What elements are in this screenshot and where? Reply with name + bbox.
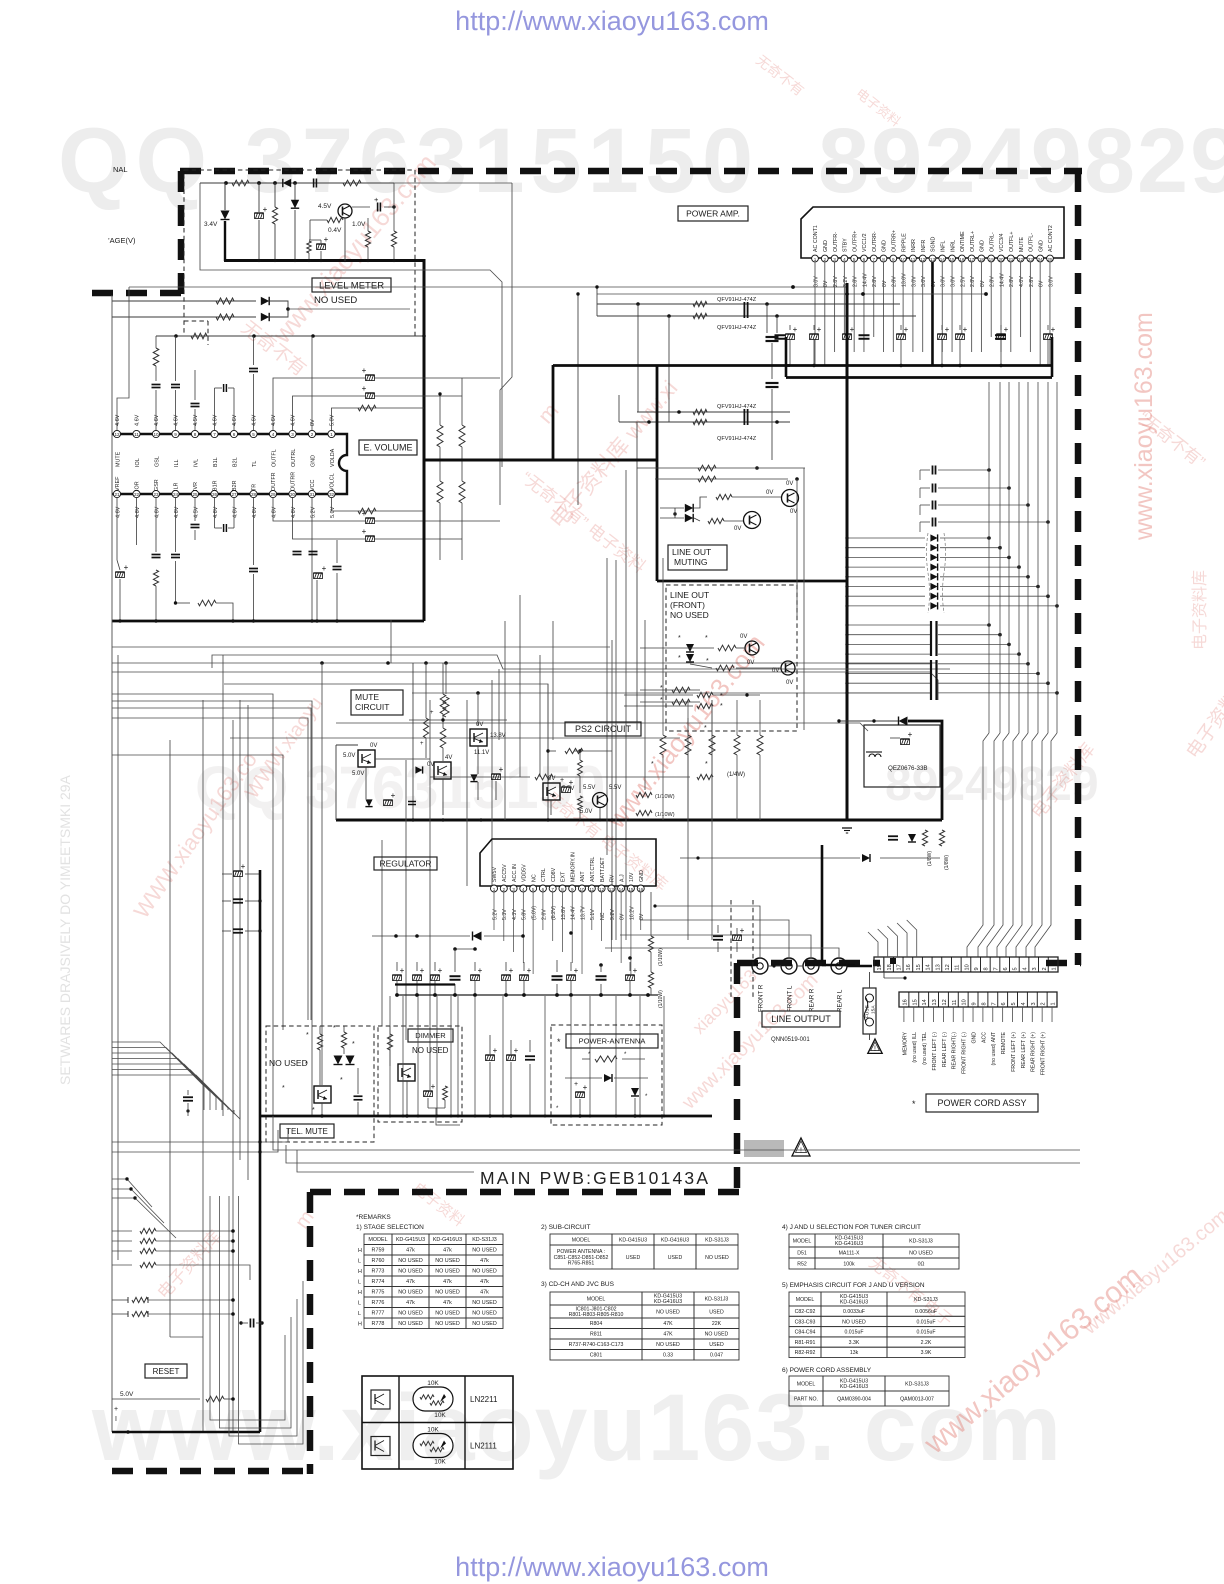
svg-text:2: 2 [311, 432, 314, 437]
level meter label [312, 278, 391, 292]
bus vertical to rear jack [821, 845, 824, 962]
svg-text:9: 9 [571, 887, 574, 892]
svg-text:10: 10 [901, 257, 907, 262]
svg-text:C83-C93: C83-C93 [795, 1319, 816, 1325]
bus wire mesh row C [112, 672, 938, 700]
svg-text:NO USED: NO USED [656, 1309, 680, 1315]
svg-text:10: 10 [579, 887, 585, 892]
power amp pin 7 OUTRR- [870, 255, 877, 262]
regulator pin 3 ACC.IN [510, 885, 517, 892]
svg-text:(no used) ANT: (no used) ANT [991, 1031, 997, 1065]
svg-text:23: 23 [153, 492, 159, 497]
svg-text:IVR: IVR [193, 482, 199, 491]
svg-text:0V: 0V [734, 526, 741, 532]
svg-text:VOLDA: VOLDA [330, 448, 336, 467]
regulator cap bank [393, 975, 402, 981]
svg-text:R737-R740-C163-C173: R737-R740-C163-C173 [569, 1342, 624, 1348]
power amp pin 13 SGND [929, 255, 936, 262]
corner x170 to x203 [170, 1336, 203, 1338]
svg-text:24: 24 [1038, 257, 1044, 262]
rc below base [307, 241, 311, 253]
svg-text:13: 13 [930, 257, 936, 262]
svg-text:MA111-X: MA111-X [839, 1250, 860, 1256]
svg-text:电子资料库: 电子资料库 [1191, 570, 1209, 650]
svg-text:FRONT RIGHT (-): FRONT RIGHT (-) [962, 1032, 968, 1074]
svg-text:KD-G416U3: KD-G416U3 [654, 1299, 682, 1305]
bridge cap pins B1R B2R [215, 527, 223, 529]
svg-text:4.6V: 4.6V [252, 414, 258, 426]
svg-text:+: + [527, 966, 532, 975]
svg-text:47K: 47K [663, 1332, 673, 1338]
e-volume pin 22 IOR [133, 490, 140, 497]
svg-text:47k: 47k [443, 1248, 452, 1254]
ps2 transistor Q [593, 793, 608, 808]
svg-text:3.3K: 3.3K [849, 1340, 860, 1346]
svg-text:+: + [362, 384, 367, 393]
regulator pin wires down [493, 892, 495, 930]
svg-text:*: * [312, 1107, 315, 1114]
svg-text:OUTFL+: OUTFL+ [1009, 232, 1015, 252]
level meter dashed enclosure [184, 170, 415, 336]
verticals above ladder to power amp [988, 382, 990, 538]
svg-text:22K: 22K [712, 1321, 722, 1327]
thick vertical left x260 [259, 870, 262, 1432]
e-volume pin 30 OUTRR [289, 490, 296, 497]
svg-text:REAR L: REAR L [837, 989, 844, 1012]
svg-text:NO USED: NO USED [909, 1250, 933, 1256]
ps2 circuit label [565, 722, 641, 736]
ecap vref [116, 572, 125, 578]
svg-text:21: 21 [114, 492, 120, 497]
svg-text:5.0V: 5.0V [352, 771, 364, 777]
svg-text:20: 20 [998, 257, 1004, 262]
svg-text:FRONT LEFT (+): FRONT LEFT (+) [1011, 1032, 1017, 1072]
svg-text:23: 23 [1028, 257, 1034, 262]
svg-text:RESET: RESET [153, 1367, 180, 1376]
svg-text:5.0V: 5.0V [343, 753, 355, 759]
svg-text:+: + [362, 527, 367, 536]
svg-text:C84-C94: C84-C94 [795, 1330, 816, 1336]
warning triangle main [792, 1138, 810, 1156]
svg-text:+: + [850, 325, 855, 334]
svg-text:0.4V: 0.4V [328, 227, 342, 234]
svg-text:5.5V: 5.5V [609, 785, 621, 791]
svg-text:IOL: IOL [135, 458, 141, 467]
svg-text:GND: GND [823, 240, 829, 252]
svg-text:2.8V: 2.8V [853, 276, 859, 287]
svg-text:4.6V: 4.6V [271, 414, 277, 426]
svg-text:18: 18 [887, 964, 893, 970]
svg-text:14: 14 [926, 964, 932, 970]
svg-text:4.6V: 4.6V [291, 414, 297, 426]
power amp pin 11 INRR [910, 255, 917, 262]
svg-text:0V: 0V [370, 743, 377, 749]
svg-text:4.6V: 4.6V [232, 414, 238, 426]
svg-text:+: + [908, 730, 913, 739]
svg-text:7: 7 [872, 257, 875, 262]
vertical resistor on mesh [443, 697, 449, 717]
svg-text:2: 2 [502, 887, 505, 892]
bottom-left cap [249, 1319, 251, 1328]
svg-text:11.1V: 11.1V [474, 750, 489, 756]
svg-text:FUSE: FUSE [865, 1005, 871, 1018]
svg-text:16: 16 [638, 887, 644, 892]
svg-text:+: + [740, 926, 745, 935]
svg-text:KD-S31J3: KD-S31J3 [909, 1238, 933, 1244]
svg-text:19: 19 [989, 257, 995, 262]
svg-text:14: 14 [619, 887, 625, 892]
thick ground rail upper [553, 364, 790, 367]
svg-text:4.6V: 4.6V [252, 506, 258, 518]
LN table resistor oval 2 [413, 1434, 453, 1458]
regulator pin 5 NC [530, 885, 537, 892]
fan wires into jacks [655, 906, 760, 957]
bus wire mesh row F [112, 701, 312, 1116]
regulator pin 4 VDD5V [520, 885, 527, 892]
wire from y287 corner down [117, 287, 129, 430]
svg-text:14.4V: 14.4V [862, 273, 868, 287]
line out front transistors [745, 641, 759, 655]
main board dashed border right [1075, 171, 1082, 965]
svg-text:0.015uF: 0.015uF [844, 1330, 863, 1336]
e-volume pin 6 B2L [230, 430, 237, 437]
svg-text:KD-S31J3: KD-S31J3 [905, 1381, 929, 1387]
svg-text:4.5V: 4.5V [318, 203, 332, 210]
svg-text:4.6V: 4.6V [213, 506, 219, 518]
ps2 resistors 1/4W [697, 692, 713, 697]
svg-text:SW5V: SW5V [492, 867, 498, 882]
qfv filter network upper [597, 303, 900, 305]
cluster right of trunk y830-860 [888, 835, 898, 837]
svg-text:FRONT R: FRONT R [758, 984, 765, 1012]
svg-text:NO USED: NO USED [472, 1321, 497, 1327]
regulator plain caps [450, 975, 461, 977]
svg-text:4: 4 [272, 432, 275, 437]
svg-text:4.6V: 4.6V [154, 414, 160, 426]
wires from left edge rail [111, 295, 113, 1432]
emphasis table [789, 1292, 821, 1306]
LN table [362, 1376, 513, 1469]
svg-text:POWER-ANTENNA: POWER-ANTENNA [579, 1037, 646, 1046]
power amp pin 21 OUTFL+ [1007, 255, 1014, 262]
svg-text:+: + [124, 563, 129, 572]
svg-text:MODEL: MODEL [793, 1238, 812, 1244]
svg-text:3: 3 [1032, 967, 1038, 970]
svg-text:OUTRR-: OUTRR- [872, 231, 878, 252]
e-volume pin 21 VREF [113, 490, 120, 497]
svg-text:+: + [241, 862, 246, 871]
power antenna resistor [595, 1056, 617, 1062]
line out muting feed resistors [637, 467, 748, 469]
level meter bottom thick bus and trunk [224, 261, 424, 461]
right ladder cap rows [932, 466, 934, 475]
svg-text:4.6V: 4.6V [232, 506, 238, 518]
power amp plain caps [859, 334, 870, 336]
svg-text:22: 22 [134, 492, 140, 497]
resistor vertical level meter [272, 207, 277, 224]
svg-text:VCC3/4: VCC3/4 [999, 233, 1005, 252]
svg-text:*: * [706, 658, 709, 665]
svg-text:6: 6 [863, 257, 866, 262]
svg-text:REAR R: REAR R [809, 988, 816, 1012]
svg-text:3.0V: 3.0V [813, 276, 819, 287]
main board dashed border left upper [178, 171, 185, 296]
tel mute opto [314, 1086, 331, 1103]
svg-text:100k: 100k [843, 1261, 855, 1267]
svg-text:ACC: ACC [981, 1032, 987, 1043]
svg-text:IVL: IVL [193, 459, 199, 467]
svg-text:4.3V: 4.3V [512, 909, 518, 920]
svg-text:10K: 10K [434, 1459, 446, 1466]
svg-text:INRL: INRL [950, 240, 956, 252]
svg-text:NO USED: NO USED [398, 1321, 423, 1327]
svg-text:25: 25 [1047, 257, 1053, 262]
svg-text:OUTFR-: OUTFR- [833, 232, 839, 252]
svg-text:R776: R776 [372, 1300, 385, 1306]
svg-text:4.6V: 4.6V [115, 506, 121, 518]
svg-text:MEMORY: MEMORY [902, 1031, 908, 1055]
svg-text:2.8V: 2.8V [892, 276, 898, 287]
svg-text:2.8V: 2.8V [990, 276, 996, 287]
volcl resistor to rail [332, 498, 425, 511]
power amp decoupling ecaps row [786, 334, 795, 340]
svg-text:9.2V: 9.2V [610, 909, 616, 920]
mute circuit resistors [440, 694, 446, 714]
svg-text:(no used) ILL: (no used) ILL [912, 1032, 918, 1063]
bridge cap pins B1L B2L [214, 388, 216, 430]
svg-text:R804: R804 [590, 1321, 603, 1327]
svg-text:MODEL: MODEL [368, 1237, 387, 1243]
fuse wires [869, 972, 871, 988]
opto D [543, 783, 560, 800]
svg-text:+: + [430, 710, 434, 716]
base resistor [327, 217, 343, 222]
svg-text:5: 5 [252, 432, 255, 437]
svg-text:0V: 0V [882, 280, 888, 287]
svg-text:+: + [904, 325, 909, 334]
svg-text:13.8V: 13.8V [561, 906, 567, 920]
svg-text:7: 7 [993, 967, 999, 970]
svg-text:B1R: B1R [213, 480, 219, 491]
level meter dashed corner piece [184, 320, 208, 322]
emitter resistors [365, 231, 370, 247]
svg-text:USED: USED [626, 1255, 641, 1261]
svg-text:LN2111: LN2111 [470, 1442, 497, 1451]
fuse F901 [863, 988, 876, 1034]
cap TR column [249, 568, 258, 570]
svg-text:15A: 15A [871, 1005, 877, 1014]
svg-text:0Ω: 0Ω [918, 1261, 925, 1267]
line output label [762, 1011, 840, 1027]
power amp pin 23 OUTFL- [1027, 255, 1034, 262]
main thick bus y820 [336, 819, 942, 822]
svg-text:REAR LEFT (+): REAR LEFT (+) [1021, 1032, 1027, 1069]
svg-text:R774: R774 [372, 1279, 385, 1285]
svg-text:5.2V: 5.2V [310, 506, 316, 518]
e-volume pin 1 VOLDA [328, 430, 335, 437]
power amp pin 18 GND [978, 255, 985, 262]
stage selection table [364, 1234, 392, 1245]
svg-text:LINE OUTPUT: LINE OUTPUT [771, 1014, 831, 1024]
bottom-left thick line [112, 1431, 260, 1434]
svg-text:R81-R91: R81-R91 [795, 1340, 816, 1346]
svg-text:ANT: ANT [580, 871, 586, 882]
main board dashed border lineout segment [737, 960, 880, 967]
svg-text:+: + [945, 325, 950, 334]
svg-text:NC: NC [600, 912, 606, 920]
svg-text:NO USED: NO USED [656, 1342, 680, 1348]
svg-text:12: 12 [599, 887, 605, 892]
main board dashed border lineout vertical [734, 963, 741, 1194]
svg-text:E. VOLUME: E. VOLUME [363, 443, 412, 453]
svg-text:47k: 47k [443, 1300, 452, 1306]
svg-text:4: 4 [1021, 1002, 1027, 1005]
svg-text:OUTRL: OUTRL [291, 449, 297, 467]
svg-text:+: + [322, 564, 327, 573]
svg-text:8: 8 [561, 887, 564, 892]
svg-text:DIMMER: DIMMER [415, 1031, 446, 1040]
svg-text:GND: GND [310, 455, 316, 467]
svg-text:6: 6 [542, 887, 545, 892]
regulator pin 14 A.J [618, 885, 625, 892]
svg-text:+: + [963, 325, 968, 334]
svg-text:2: 2 [824, 257, 827, 262]
svg-text:47k: 47k [443, 1279, 452, 1285]
svg-text:5) EMPHASIS CIRCUIT FOR J AND: 5) EMPHASIS CIRCUIT FOR J AND U VERSION [782, 1282, 925, 1289]
svg-text:0V: 0V [772, 668, 779, 674]
svg-text:ONTIME: ONTIME [960, 231, 966, 252]
mute long vertical x413 [412, 663, 414, 820]
e-volume pin 7 B1L [211, 430, 218, 437]
svg-text:+: + [431, 1082, 436, 1091]
svg-text:12: 12 [945, 964, 951, 970]
svg-text:GSR: GSR [154, 479, 160, 491]
svg-text:8: 8 [981, 1002, 987, 1005]
svg-text:5: 5 [1011, 1002, 1017, 1005]
e-volume pin 24 ILR [172, 490, 179, 497]
svg-text:4.6V: 4.6V [135, 506, 141, 518]
regulator IC body IC901 [480, 839, 656, 886]
svg-text:*: * [705, 635, 708, 642]
svg-text:MEMORY.IN: MEMORY.IN [570, 852, 576, 882]
zener + ecap mute [470, 774, 477, 781]
mute circuit label [351, 690, 403, 715]
verticals from regulator caps down to bus [389, 996, 391, 1116]
svg-text:19: 19 [877, 964, 883, 970]
svg-text:15: 15 [949, 257, 955, 262]
svg-text:0V: 0V [980, 280, 986, 287]
power amp pin 20 VCC3/4 [998, 255, 1005, 262]
power amp pin 5 OUTFR+ [851, 255, 858, 262]
dimmer dashed box [378, 1026, 462, 1122]
svg-text:NO USED: NO USED [472, 1248, 497, 1254]
pin17 mark [890, 958, 896, 964]
svg-text:L: L [358, 1280, 361, 1286]
thick bus y1116 [260, 1115, 712, 1118]
cd-ch jvc table [550, 1292, 642, 1305]
svg-text:11: 11 [134, 432, 139, 437]
svg-text:10K: 10K [427, 1380, 439, 1387]
svg-text:ACC5V: ACC5V [502, 864, 508, 882]
svg-text:NO USED: NO USED [705, 1255, 729, 1261]
mute wires [335, 745, 337, 820]
e-volume label [359, 440, 417, 455]
svg-text:*: * [660, 685, 663, 692]
e-volume IC bottom pin row line [112, 493, 338, 495]
svg-text:USED: USED [709, 1309, 724, 1315]
ecap outfr [366, 518, 375, 524]
regulator right 1/10W resistors [648, 936, 653, 952]
svg-text:INFR: INFR [921, 239, 927, 252]
main board dashed border jog left [92, 290, 184, 297]
caps right below [293, 551, 302, 553]
svg-text:REAR RIGHT(-): REAR RIGHT(-) [952, 1032, 958, 1069]
svg-text:CIRCUIT: CIRCUIT [355, 702, 389, 712]
LN table transistor icon 2 [371, 1437, 390, 1456]
svg-text:3.0V: 3.0V [941, 276, 947, 287]
svg-text:3) CD-CH AND JVC BUS: 3) CD-CH AND JVC BUS [541, 1281, 615, 1288]
power cord table [789, 1376, 823, 1391]
wire out of level meter [200, 183, 502, 467]
qfv filter network lower [637, 411, 790, 413]
svg-text:10: 10 [962, 999, 968, 1005]
svg-text:2.8V: 2.8V [872, 276, 878, 287]
power amp pin 15 INRL [949, 255, 956, 262]
e-volume pin 28 TR [250, 490, 257, 497]
svg-text:VCC: VCC [310, 480, 316, 491]
svg-text:ANT.CTRL: ANT.CTRL [590, 857, 596, 882]
bus wire mesh row H [112, 718, 308, 1020]
bottom-left resistor rows [112, 1230, 132, 1232]
svg-text:FRONT L: FRONT L [787, 985, 794, 1012]
main thick vertical trunk right [846, 283, 849, 820]
svg-text:R52: R52 [797, 1261, 807, 1267]
power amp pin 25 AC CONT2 [1047, 255, 1054, 262]
svg-text:(1/10W): (1/10W) [658, 948, 664, 966]
svg-text:CTRL: CTRL [541, 868, 547, 882]
svg-text:0.0056uF: 0.0056uF [915, 1309, 937, 1315]
svg-text:15: 15 [628, 887, 634, 892]
svg-text:10.2V: 10.2V [629, 906, 635, 920]
svg-text:GND: GND [980, 240, 986, 252]
svg-text:VOLCL: VOLCL [330, 473, 336, 491]
power amp pin 24 GND [1037, 255, 1044, 262]
svg-text:R765-R851: R765-R851 [568, 1261, 595, 1267]
cap pin8 column [191, 403, 200, 405]
svg-text:EXT: EXT [561, 871, 567, 882]
svg-text:5.2V: 5.2V [492, 909, 498, 920]
svg-text:7: 7 [551, 887, 554, 892]
svg-text:NO USED: NO USED [435, 1311, 460, 1317]
svg-text:1.0V: 1.0V [352, 221, 366, 228]
svg-text:9: 9 [892, 257, 895, 262]
level meter wire extension right [394, 182, 512, 184]
diode top right thick [899, 717, 908, 726]
svg-text:10: 10 [964, 964, 970, 970]
svg-text:FRONT RIGHT (+): FRONT RIGHT (+) [1041, 1032, 1047, 1075]
e-volume outfl wires to ecaps [273, 378, 500, 430]
right vertical drop wires [988, 538, 990, 733]
svg-text:QFV91HJ-474Z: QFV91HJ-474Z [717, 436, 757, 442]
svg-text:+: + [583, 1083, 588, 1092]
svg-text:R778: R778 [372, 1321, 385, 1327]
cap pin9 column [171, 384, 180, 386]
e-volume below: outfr wires [273, 498, 500, 521]
svg-text:4.6V: 4.6V [115, 414, 121, 426]
bus wire mesh long row L [230, 737, 680, 739]
svg-text:5.8V: 5.8V [522, 909, 528, 920]
svg-text:VDD5V: VDD5V [522, 864, 528, 882]
